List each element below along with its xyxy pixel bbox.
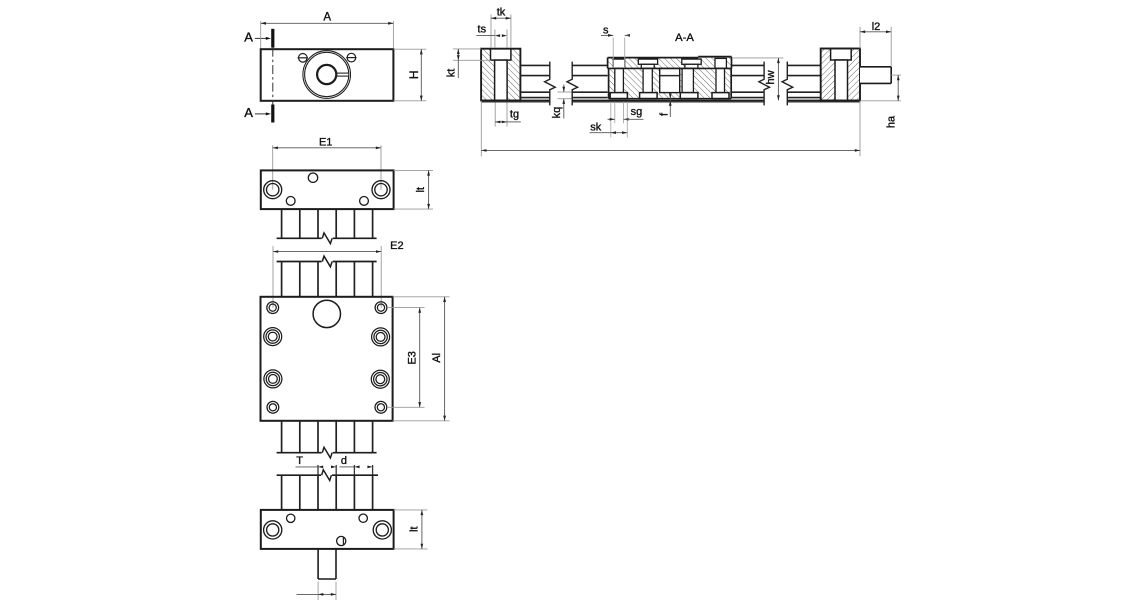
dim f line <box>669 93 671 117</box>
view4 small hole left <box>287 514 295 522</box>
view1 screw right <box>347 53 356 62</box>
carriage body bottom line <box>609 98 732 100</box>
tray bottom line <box>481 101 550 103</box>
dim E3 extension lines <box>387 307 425 309</box>
view2 hole left inner <box>267 184 279 196</box>
tray top line <box>481 100 550 102</box>
view4 drive shaft <box>317 549 319 579</box>
dim l2 extension lines <box>859 27 861 49</box>
dim E2 extension lines <box>272 246 274 308</box>
body channel 2 <box>643 68 652 92</box>
view4 hole left outer <box>264 521 282 539</box>
belt row1 bottom line <box>277 237 322 239</box>
view2 block outline <box>261 170 394 209</box>
svg-text:tk: tk <box>497 6 506 18</box>
dim tk extension lines <box>490 15 492 49</box>
view1 clamp slit <box>336 72 349 74</box>
dim T arrows <box>318 466 323 469</box>
dim s line <box>601 34 613 36</box>
break mark right gap 2 <box>782 62 793 106</box>
svg-text:ts: ts <box>478 24 487 36</box>
dim sk line <box>590 132 611 134</box>
dim E1 extension lines <box>272 145 274 190</box>
view4 dim lt extension lines <box>394 509 428 511</box>
overall dim line <box>481 149 860 151</box>
plate T-slot 3 wide <box>682 59 701 64</box>
body center cavity <box>660 68 680 92</box>
view4 small hole bottom-center <box>337 536 346 545</box>
dim E3 line <box>419 308 421 408</box>
dim T leader <box>296 466 319 468</box>
dim l2 line <box>860 31 891 33</box>
drive shaft <box>860 67 891 84</box>
svg-text:ha: ha <box>885 115 897 128</box>
belt teeth row2 <box>281 262 283 297</box>
carriage foot 2 <box>640 93 658 99</box>
view4 hole right outer <box>373 521 391 539</box>
carriage left edge <box>607 58 609 69</box>
carriage washer hole top-right <box>372 328 390 346</box>
dim sg line <box>608 118 615 120</box>
dim d arrows <box>354 466 359 469</box>
plate T-slot 3 narrow <box>685 64 698 68</box>
dim d leader <box>340 466 355 468</box>
carriage washer hole top-left <box>264 328 282 346</box>
view2 dim lt line <box>428 170 430 209</box>
body channel 3 <box>682 68 693 92</box>
carriage corner hole TL <box>267 302 279 314</box>
belt row2 break mark <box>322 256 332 267</box>
dim H extension lines <box>393 48 426 50</box>
belt rails segment L2 <box>572 64 607 66</box>
view4 dim lt line <box>421 510 423 549</box>
plate T-slot 2 narrow <box>641 64 654 68</box>
svg-text:tg: tg <box>510 109 519 121</box>
view4 shaft dim line <box>297 593 319 595</box>
view1 screw left <box>299 54 308 63</box>
belt row3 break mark <box>322 447 332 458</box>
svg-text:kq: kq <box>551 107 563 119</box>
plate T-slot 2 wide <box>638 59 657 64</box>
view1 bore circle <box>317 65 336 84</box>
view2 hole right inner <box>375 184 387 196</box>
dim hw line <box>777 58 779 101</box>
dim kq line <box>563 85 565 93</box>
belt rails segment L1 <box>520 64 549 66</box>
svg-text:A-A: A-A <box>675 32 694 44</box>
svg-text:lt: lt <box>409 526 421 532</box>
dim Al extension lines <box>393 296 450 298</box>
dim T extension teeth <box>317 465 319 475</box>
view2 small hole right <box>360 197 369 206</box>
dim kt extension lines <box>453 48 481 50</box>
svg-text:T: T <box>296 455 303 467</box>
carriage corner hole TR <box>375 302 387 314</box>
belt row2 top line <box>277 261 322 263</box>
carriage washer hole bottom-right <box>371 370 389 388</box>
dim d extension teeth <box>353 465 355 475</box>
view4 shaft dim extension lines <box>317 582 319 600</box>
belt row1 break mark <box>322 233 332 244</box>
dim Al line <box>444 297 446 421</box>
svg-text:A: A <box>323 12 331 24</box>
kq measured lines <box>558 91 572 93</box>
svg-text:s: s <box>603 25 609 37</box>
svg-text:A: A <box>244 30 253 45</box>
body channel 1 <box>615 68 624 92</box>
left block wide slot <box>491 49 511 60</box>
dim A extension lines <box>260 21 262 48</box>
dim tg extension lines <box>494 101 496 127</box>
dim H line <box>420 49 422 101</box>
section mark bottom arrow <box>255 113 267 115</box>
dim tg line <box>495 121 507 123</box>
svg-text:sg: sg <box>631 106 643 118</box>
overall dim extension lines <box>480 101 482 157</box>
carriage plate bottom line <box>608 67 732 69</box>
carriage body hatch <box>609 68 732 98</box>
carriage corner hole BL <box>267 401 279 413</box>
break mark left gap 1 <box>545 62 556 106</box>
carriage foot 4 <box>712 93 729 99</box>
view4 small hole right <box>359 514 367 522</box>
svg-text:lt: lt <box>415 187 427 193</box>
view4 hole right inner <box>376 524 388 536</box>
view2 hole right outer <box>372 181 390 199</box>
carriage corner hole BR <box>375 401 387 413</box>
carriage bore circle <box>313 300 340 327</box>
dim ts line <box>476 35 495 37</box>
dim hw extension line <box>733 57 783 59</box>
section mark bottom bar <box>271 105 274 123</box>
svg-text:kt: kt <box>445 69 457 78</box>
view2 dim lt extension lines <box>394 169 433 171</box>
belt line through cavity <box>660 75 680 77</box>
dim s extension lines <box>612 38 614 69</box>
dim ha extension lines <box>891 74 901 76</box>
belt row4 break mark <box>322 470 332 481</box>
section mark top arrow <box>255 37 267 39</box>
break mark right gap 1 <box>759 62 770 106</box>
dim ha line <box>897 75 899 101</box>
svg-text:l2: l2 <box>872 21 881 33</box>
carriage foot 1 <box>610 93 627 99</box>
svg-text:E2: E2 <box>390 240 403 252</box>
belt teeth row3 <box>281 421 283 453</box>
carriage plate hatch <box>608 58 732 69</box>
dim kt line <box>457 49 459 78</box>
dim A line <box>261 22 394 24</box>
left block outline <box>481 49 520 101</box>
view1 end-block outline <box>261 49 394 101</box>
right block hatch <box>821 49 860 101</box>
carriage plate top line <box>608 57 699 59</box>
belt row3 bottom line <box>277 452 322 454</box>
view2 small hole left <box>286 197 295 206</box>
body channel 4 <box>716 68 725 92</box>
svg-text:d: d <box>341 455 347 467</box>
break mark left gap 2 <box>567 62 578 106</box>
svg-text:hw: hw <box>765 70 777 84</box>
svg-text:E3: E3 <box>407 351 419 364</box>
svg-text:sk: sk <box>590 122 602 134</box>
left block hatch <box>481 49 520 101</box>
svg-text:A: A <box>244 105 253 120</box>
view1 clamp ring outer circle <box>303 51 351 99</box>
view2 hole left outer <box>264 181 282 199</box>
section mark top bar <box>271 29 274 48</box>
view4 hole left inner <box>267 524 279 536</box>
view2 small hole top-center <box>308 173 317 182</box>
dim E2 line <box>273 251 381 253</box>
right block narrow slot <box>835 60 848 101</box>
dim sk sg extension lines <box>610 102 612 138</box>
svg-text:E1: E1 <box>319 137 332 149</box>
right block outline <box>821 49 860 101</box>
svg-text:Al: Al <box>431 353 443 363</box>
carriage right edge <box>731 57 733 69</box>
svg-text:H: H <box>407 70 421 79</box>
right block wide slot <box>831 49 852 61</box>
belt teeth row4 <box>281 475 283 510</box>
view1 clamp ring inner circle <box>305 52 349 96</box>
left block narrow slot <box>495 60 508 100</box>
belt teeth row1 <box>281 209 283 238</box>
belt rails segment R2 <box>787 64 820 66</box>
belt rails segment R1 <box>732 64 765 66</box>
dim E1 line <box>273 147 381 149</box>
dim tk line <box>491 17 511 19</box>
view4 block outline <box>261 510 394 549</box>
carriage outline <box>261 297 393 421</box>
plate slot right <box>715 58 726 68</box>
plate slot s <box>613 59 625 68</box>
view1 section cut line A-A (dash-dot) <box>272 48 274 105</box>
dim ts extension lines <box>494 30 496 49</box>
belt row4 top line <box>277 474 321 476</box>
carriage foot 3 <box>680 93 698 99</box>
carriage washer hole bottom-left <box>264 370 282 388</box>
